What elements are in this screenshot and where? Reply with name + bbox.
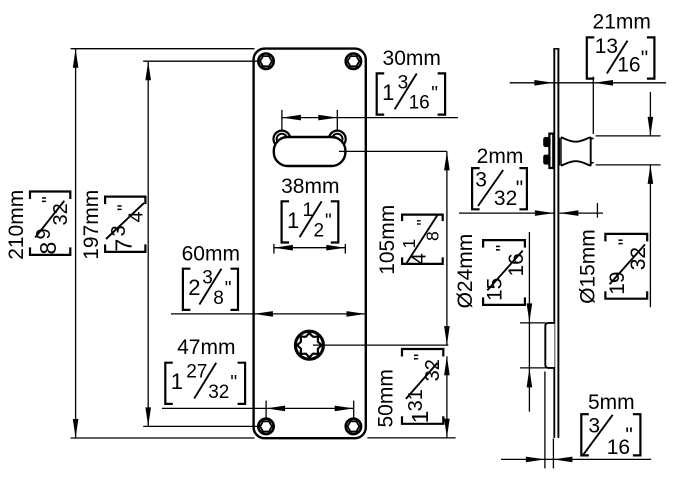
dim 47mm line bbox=[162, 407, 354, 409]
svg-text:16: 16 bbox=[617, 54, 640, 77]
svg-text:105mm: 105mm bbox=[376, 205, 399, 275]
plate outline front view bbox=[254, 49, 366, 439]
svg-text:197mm: 197mm bbox=[80, 190, 103, 260]
handle post left bbox=[274, 131, 291, 148]
fixing nut lower bbox=[544, 156, 549, 164]
label 30mm inches bracket bbox=[377, 72, 445, 114]
knob bottom edge bbox=[561, 161, 591, 166]
dim 15mm top extension line bbox=[596, 135, 661, 137]
torx hole star bbox=[297, 333, 322, 358]
svg-text:4: 4 bbox=[125, 211, 147, 222]
svg-text:16: 16 bbox=[505, 253, 528, 276]
label 50mm inches bracket bbox=[402, 349, 444, 424]
dim 38mm right extension line bbox=[344, 244, 346, 254]
dim 47mm right extension line bbox=[353, 401, 355, 419]
knob back bar bbox=[549, 134, 553, 168]
dim 60mm line bbox=[171, 313, 366, 315]
dim 15mm arrow up bbox=[648, 165, 654, 184]
dim 210mm arrow up bbox=[73, 49, 79, 68]
svg-text:1: 1 bbox=[287, 208, 299, 233]
svg-text:1: 1 bbox=[171, 369, 183, 394]
fixing nut upper bbox=[544, 138, 549, 146]
svg-text:Ø24mm: Ø24mm bbox=[454, 234, 477, 309]
label 24mm inches bracket bbox=[483, 240, 528, 305]
svg-text:5mm: 5mm bbox=[588, 391, 635, 414]
screw hole top-right bbox=[346, 54, 361, 69]
svg-text:1: 1 bbox=[407, 411, 433, 424]
svg-text:": " bbox=[641, 47, 648, 70]
svg-text:Ø15mm: Ø15mm bbox=[577, 229, 600, 304]
dim 2mm line left bbox=[459, 212, 554, 214]
dim 5mm line bbox=[501, 458, 651, 460]
dim 197mm line bbox=[147, 61, 149, 426]
svg-text:": " bbox=[625, 424, 632, 447]
svg-text:210mm: 210mm bbox=[5, 190, 28, 260]
svg-text:32: 32 bbox=[494, 187, 517, 210]
label 105mm inches bracket bbox=[399, 215, 443, 265]
cylinder bump side view bbox=[545, 323, 554, 368]
dim 50mm arrow up bbox=[444, 356, 450, 375]
svg-text:": " bbox=[616, 239, 637, 246]
dim 105mm arrow down bbox=[444, 326, 450, 345]
label 197mm inches bracket bbox=[105, 197, 147, 252]
label 2mm inches bracket bbox=[472, 168, 527, 210]
leader torx centre bbox=[313, 344, 448, 346]
dim 30mm arrow left bbox=[282, 115, 301, 121]
dim 15mm line lower bbox=[649, 165, 651, 307]
svg-text:1: 1 bbox=[382, 80, 394, 105]
dim 21mm arrow right bbox=[534, 80, 553, 86]
dim 47mm arrow left bbox=[266, 406, 285, 412]
dim 24mm arrow up bbox=[527, 368, 533, 387]
svg-text:30mm: 30mm bbox=[383, 47, 441, 70]
dim 47mm left extension line bbox=[265, 401, 267, 419]
svg-text:32: 32 bbox=[208, 382, 229, 403]
label 105mm bbox=[376, 205, 399, 275]
svg-text:8: 8 bbox=[35, 242, 61, 255]
dim 2mm arrow right bbox=[535, 210, 554, 216]
dim 38mm left extension line bbox=[273, 244, 275, 254]
dim 105mm line bbox=[446, 151, 448, 345]
svg-text:": " bbox=[431, 83, 438, 104]
dim 38mm line bbox=[274, 247, 345, 249]
svg-text:": " bbox=[494, 245, 515, 252]
screw hole bottom-right bbox=[346, 419, 361, 434]
svg-text:7: 7 bbox=[110, 239, 136, 252]
dim 30mm line bbox=[282, 117, 458, 119]
dim 15mm arrow down bbox=[648, 117, 654, 136]
dim 210mm bottom extension line bbox=[71, 437, 255, 439]
dim 21mm line bbox=[510, 82, 666, 84]
dim 30mm left extension line bbox=[281, 110, 283, 131]
svg-text:47mm: 47mm bbox=[177, 336, 235, 359]
svg-text:2: 2 bbox=[188, 275, 200, 300]
torx hole outer circle bbox=[295, 331, 323, 359]
svg-text:8: 8 bbox=[423, 231, 443, 241]
dim 47mm arrow right bbox=[335, 406, 354, 412]
dim 197mm arrow down bbox=[145, 407, 151, 426]
dim 210mm arrow down bbox=[73, 419, 79, 438]
dim 30mm right extension line bbox=[336, 110, 338, 131]
dim 60mm arrow left bbox=[254, 311, 273, 317]
label 21mm inches bracket bbox=[587, 35, 655, 78]
handle grip pill bbox=[274, 137, 346, 166]
label 60mm inches bracket bbox=[183, 268, 238, 310]
dim 24mm top extension line bbox=[520, 322, 546, 324]
svg-text:31: 31 bbox=[405, 389, 427, 411]
dim 197mm top extension line bbox=[143, 60, 258, 62]
dim 197mm bottom extension line bbox=[143, 425, 258, 427]
side plate back line bbox=[553, 49, 555, 438]
svg-text:60mm: 60mm bbox=[182, 242, 240, 265]
svg-text:8: 8 bbox=[213, 288, 224, 309]
svg-text:": " bbox=[115, 204, 136, 211]
dim 24mm line upper bbox=[528, 232, 530, 412]
svg-text:27: 27 bbox=[186, 362, 207, 383]
label 197mm bbox=[80, 190, 103, 260]
knob face cap bottom stub bbox=[591, 162, 594, 164]
svg-text:2mm: 2mm bbox=[477, 145, 524, 168]
svg-text:2: 2 bbox=[314, 220, 325, 241]
dim 5mm left extension line bbox=[544, 372, 546, 469]
handle post right bbox=[329, 131, 346, 148]
dim 50mm bottom extension line bbox=[367, 437, 455, 439]
screw hole top-left bbox=[258, 54, 273, 69]
dim 2mm arrow left bbox=[559, 210, 578, 216]
svg-text:": " bbox=[413, 219, 433, 225]
dim 210mm line bbox=[75, 49, 77, 438]
dim 24mm arrow down bbox=[527, 303, 533, 322]
dim 24mm bottom extension line bbox=[520, 367, 546, 369]
label 50mm bbox=[375, 369, 398, 427]
dim 38mm arrow right bbox=[326, 245, 345, 251]
dim 2mm line right bbox=[559, 212, 603, 214]
svg-text:": " bbox=[40, 196, 61, 203]
dim 5mm right extension line bbox=[552, 438, 554, 468]
dim 30mm arrow right bbox=[318, 115, 337, 121]
knob collar line 2 bbox=[560, 137, 562, 165]
dim 21mm extension line bbox=[592, 77, 594, 134]
label 47mm inches bracket bbox=[165, 362, 245, 404]
dim 197mm arrow up bbox=[145, 61, 151, 80]
svg-text:16: 16 bbox=[409, 93, 430, 114]
leader handle centre bbox=[339, 150, 447, 152]
svg-text:3: 3 bbox=[475, 168, 487, 191]
dim 15mm line upper bbox=[649, 92, 651, 136]
svg-text:32: 32 bbox=[50, 203, 72, 225]
dim 210mm top extension line bbox=[71, 48, 255, 50]
svg-text:32: 32 bbox=[422, 359, 444, 381]
dim 21mm arrow left bbox=[594, 80, 613, 86]
svg-text:": " bbox=[225, 279, 232, 300]
svg-text:13: 13 bbox=[595, 35, 618, 58]
dim 15mm bottom extension line bbox=[596, 164, 661, 166]
label 210mm inches bracket bbox=[30, 192, 72, 255]
svg-text:50mm: 50mm bbox=[375, 369, 398, 427]
label diameter 15mm bbox=[577, 229, 600, 304]
dim 38mm arrow left bbox=[274, 245, 293, 251]
side plate front line bbox=[557, 49, 559, 438]
screw hole bottom-left bbox=[258, 419, 273, 434]
knob top edge bbox=[561, 137, 591, 142]
knob face line bbox=[590, 137, 592, 166]
knob collar line 1 bbox=[559, 138, 561, 166]
svg-text:32: 32 bbox=[627, 247, 650, 270]
svg-text:": " bbox=[230, 373, 237, 394]
svg-text:": " bbox=[516, 177, 523, 200]
svg-text:21mm: 21mm bbox=[593, 11, 651, 34]
svg-text:38mm: 38mm bbox=[281, 175, 339, 198]
dim 105mm arrow up bbox=[444, 151, 450, 170]
knob face cap top stub bbox=[591, 138, 594, 140]
dim 2mm end tick bbox=[596, 203, 598, 218]
label 38mm inches bracket bbox=[282, 200, 339, 242]
side plate top cap bbox=[553, 48, 559, 50]
label 5mm inches bracket bbox=[581, 414, 640, 459]
label 210mm bbox=[5, 190, 28, 260]
dim 5mm arrow right bbox=[526, 457, 545, 463]
dim 60mm arrow right bbox=[347, 311, 366, 317]
dim 50mm arrow down bbox=[444, 419, 450, 438]
dim 50mm line bbox=[446, 356, 448, 437]
svg-text:": " bbox=[325, 211, 332, 232]
svg-text:": " bbox=[412, 354, 433, 361]
label diameter 24mm bbox=[454, 234, 477, 309]
svg-text:9: 9 bbox=[33, 228, 55, 239]
label 15mm inches bracket bbox=[605, 234, 650, 299]
dim 5mm arrow left bbox=[553, 457, 572, 463]
